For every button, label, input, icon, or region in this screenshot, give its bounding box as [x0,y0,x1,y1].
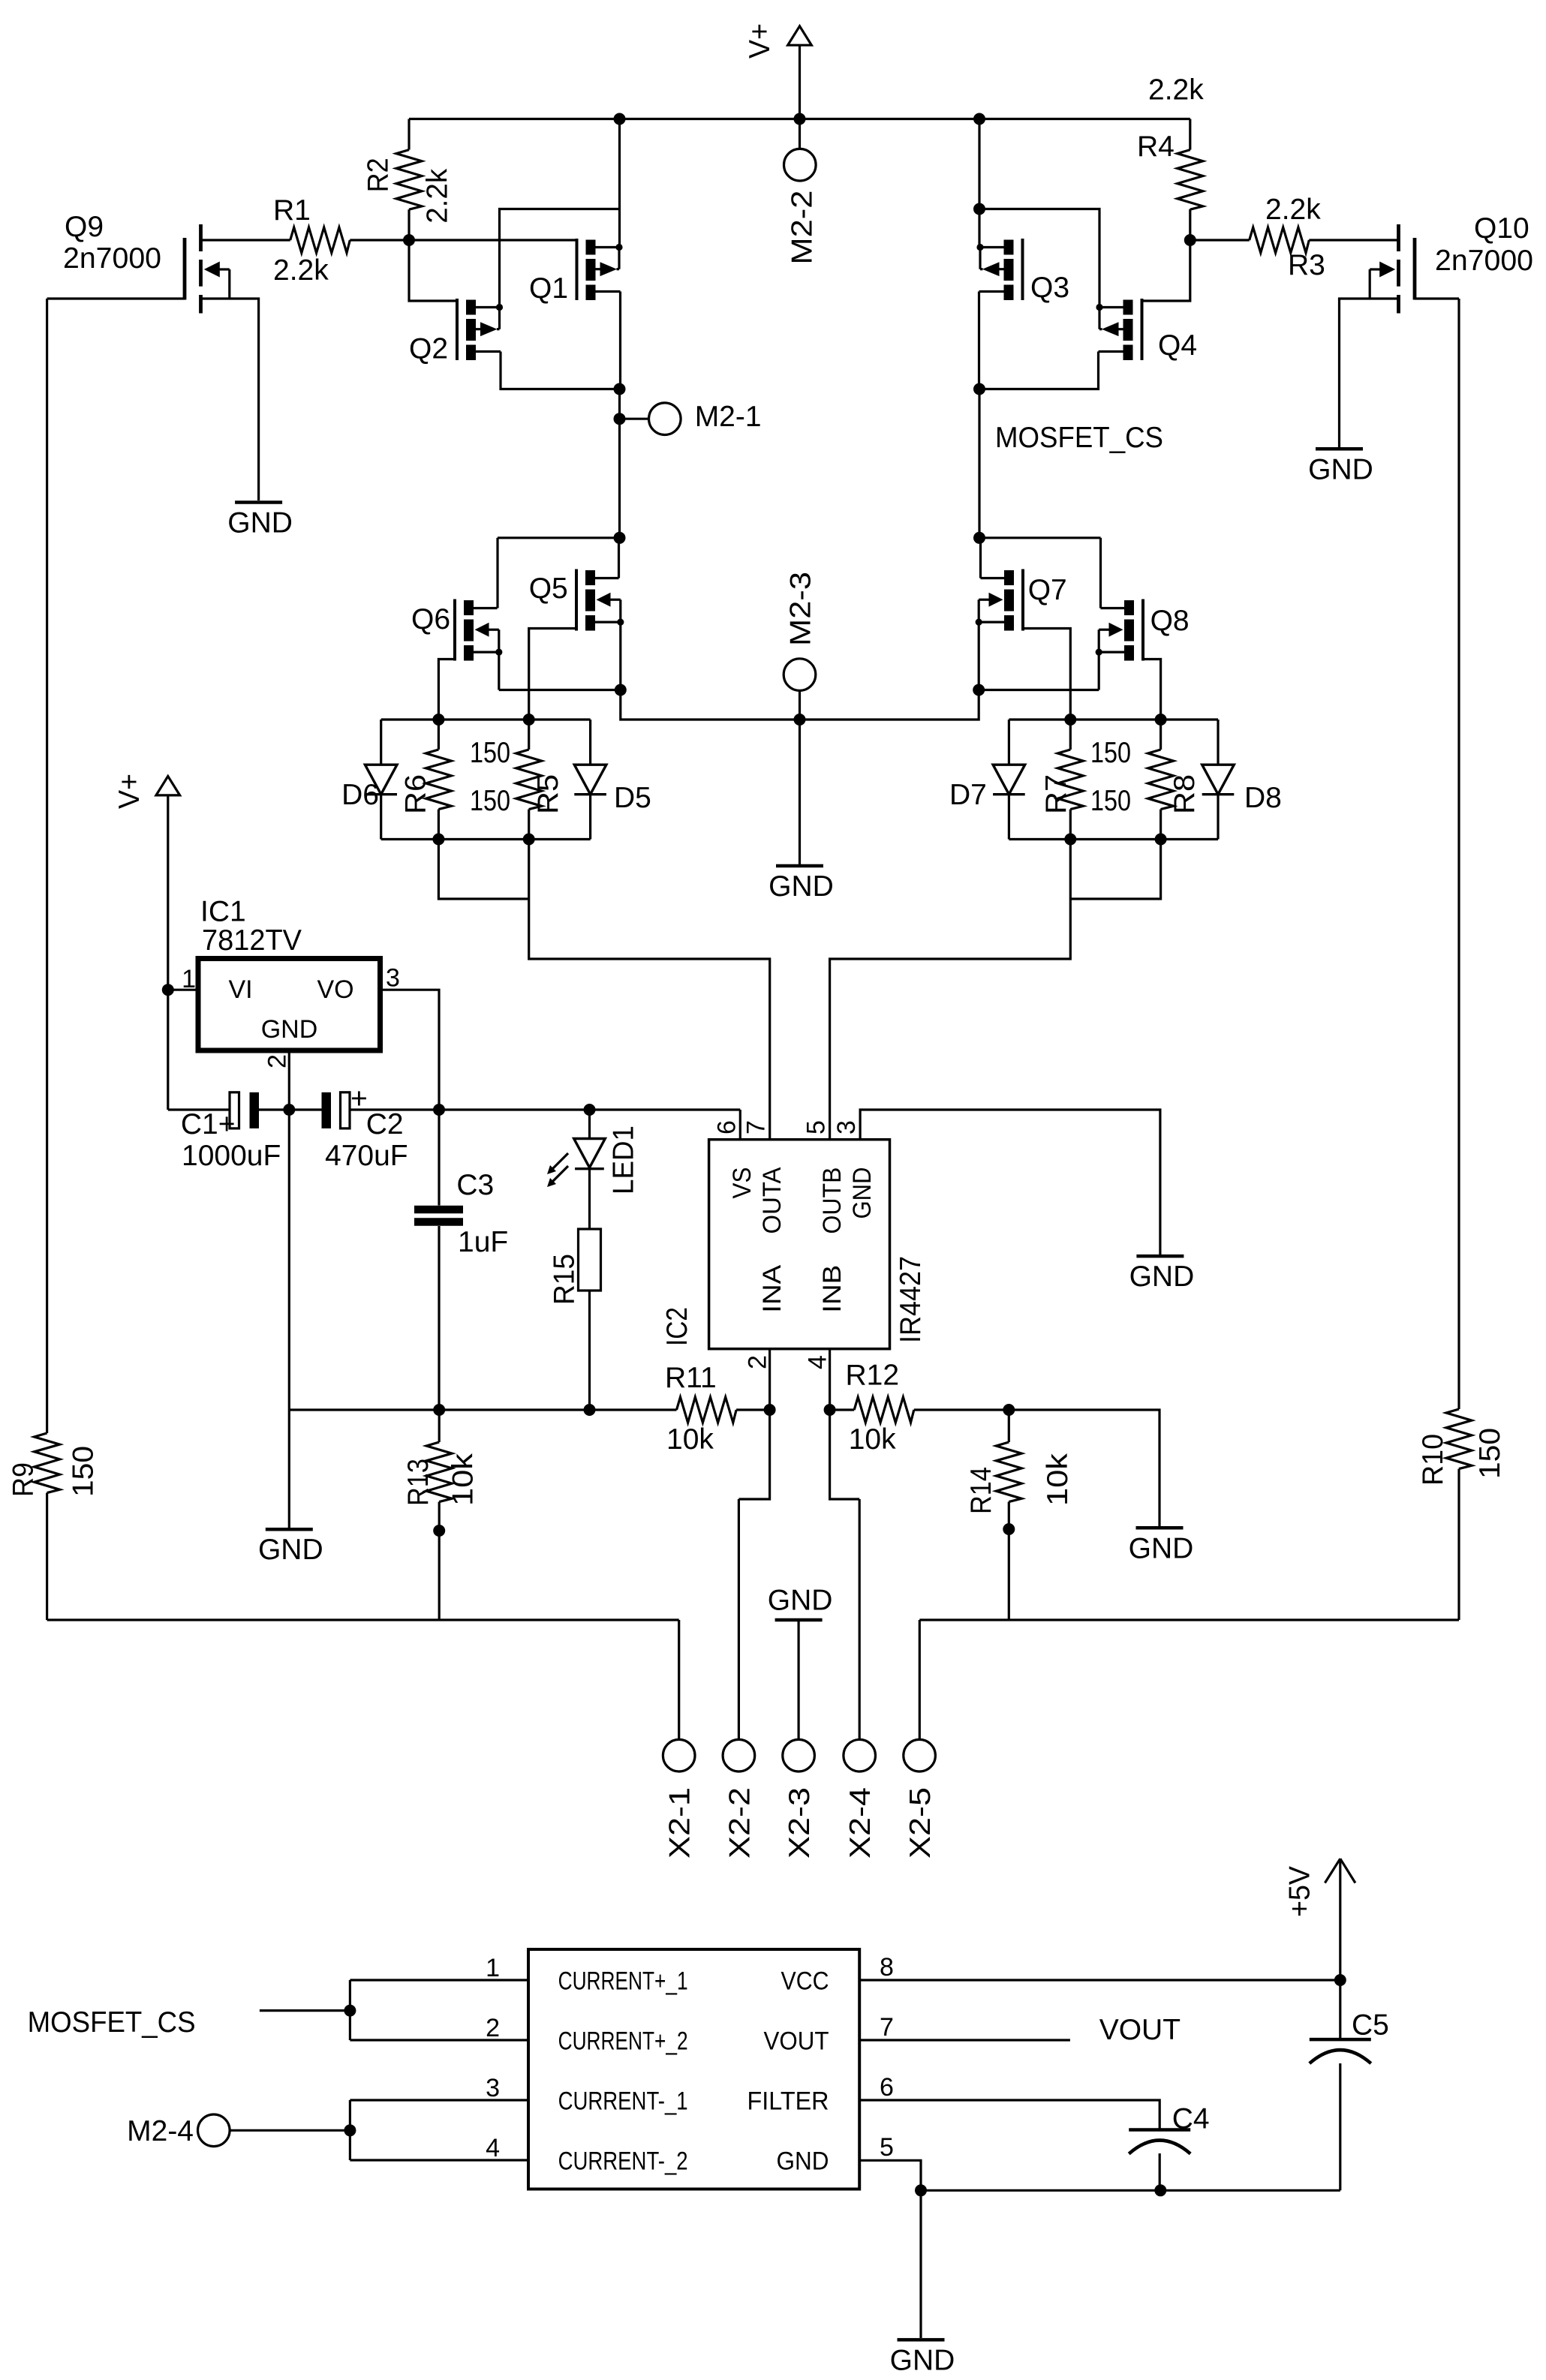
svg-text:1: 1 [182,965,196,993]
svg-text:X2-2: X2-2 [723,1787,756,1859]
svg-text:2: 2 [486,2014,500,2042]
svg-text:D7: D7 [949,779,987,811]
svg-text:Q7: Q7 [1028,574,1067,606]
svg-text:1uF: 1uF [458,1226,508,1258]
svg-text:150: 150 [1474,1428,1506,1479]
svg-text:8: 8 [880,1953,894,1982]
svg-text:Q4: Q4 [1158,329,1197,362]
svg-text:VCC: VCC [781,1967,829,1996]
svg-text:Q8: Q8 [1150,605,1190,637]
svg-text:470uF: 470uF [325,1140,408,1172]
svg-text:GND: GND [1308,453,1373,485]
svg-text:4: 4 [804,1355,832,1369]
svg-text:MOSFET_CS: MOSFET_CS [28,2006,196,2039]
svg-text:Q2: Q2 [409,333,448,365]
svg-text:D6: D6 [341,779,379,811]
svg-text:6: 6 [712,1120,741,1134]
svg-text:5: 5 [802,1120,831,1134]
svg-text:M2-3: M2-3 [785,572,817,646]
svg-text:10k: 10k [666,1423,714,1456]
svg-text:GND: GND [848,1167,877,1219]
svg-text:1000uF: 1000uF [182,1140,281,1172]
svg-text:GND: GND [890,2344,955,2376]
svg-text:IR4427: IR4427 [895,1256,927,1343]
svg-text:C3: C3 [456,1169,494,1201]
svg-text:CURRENT-_2: CURRENT-_2 [558,2147,688,2176]
svg-text:2n7000: 2n7000 [63,242,161,275]
svg-text:Q6: Q6 [411,603,450,636]
svg-text:R11: R11 [665,1362,717,1394]
svg-text:GND: GND [777,2147,829,2176]
svg-text:IC2: IC2 [661,1307,693,1346]
svg-text:V+: V+ [113,774,146,809]
svg-text:R8: R8 [1169,774,1201,814]
svg-text:Q9: Q9 [65,211,104,243]
svg-text:R9: R9 [7,1462,39,1497]
svg-text:VS: VS [728,1167,756,1199]
svg-text:GND: GND [768,1585,833,1617]
svg-text:VI: VI [229,975,253,1004]
svg-text:R3: R3 [1288,249,1325,281]
svg-text:CURRENT-_1: CURRENT-_1 [558,2087,688,2116]
svg-text:150: 150 [1090,785,1131,817]
svg-text:GND: GND [768,870,834,903]
svg-text:D5: D5 [614,782,651,814]
svg-text:VO: VO [317,975,354,1004]
svg-text:C1+: C1+ [181,1108,236,1140]
svg-text:3: 3 [486,2074,500,2102]
svg-text:150: 150 [67,1446,99,1497]
svg-text:VOUT: VOUT [764,2027,829,2056]
svg-text:2.2k: 2.2k [421,168,453,223]
svg-text:7: 7 [742,1120,771,1134]
svg-text:2: 2 [744,1355,772,1369]
svg-text:MOSFET_CS: MOSFET_CS [995,422,1163,454]
svg-text:INB: INB [818,1265,847,1313]
svg-text:CURRENT+_1: CURRENT+_1 [558,1967,688,1996]
svg-text:10k: 10k [849,1423,896,1456]
svg-text:R10: R10 [1417,1434,1449,1486]
svg-text:C4: C4 [1172,2103,1210,2135]
svg-text:M2-4: M2-4 [127,2115,194,2147]
svg-text:4: 4 [486,2134,500,2162]
svg-text:GND: GND [261,1015,318,1044]
svg-text:R7: R7 [1040,774,1072,814]
svg-text:X2-5: X2-5 [904,1787,937,1859]
svg-text:3: 3 [386,964,400,993]
svg-text:Q10: Q10 [1474,212,1529,245]
svg-text:GND: GND [1129,1532,1194,1564]
svg-text:IC1: IC1 [200,896,246,928]
svg-text:GND: GND [258,1534,323,1566]
svg-text:R2: R2 [362,158,394,192]
svg-text:150: 150 [470,785,510,817]
svg-text:GND: GND [227,507,293,539]
svg-text:INA: INA [758,1264,787,1312]
svg-text:R5: R5 [532,774,564,814]
svg-text:CURRENT+_2: CURRENT+_2 [558,2027,688,2056]
svg-text:Q1: Q1 [529,272,568,305]
svg-text:2.2k: 2.2k [273,254,329,287]
svg-text:M2-2: M2-2 [786,191,818,265]
svg-text:R1: R1 [273,194,311,227]
svg-text:7: 7 [880,2013,894,2042]
svg-text:150: 150 [1090,737,1131,769]
svg-text:2: 2 [263,1054,292,1068]
svg-text:2.2k: 2.2k [1148,74,1204,107]
svg-text:X2-4: X2-4 [844,1787,877,1859]
svg-text:5: 5 [880,2133,894,2162]
svg-text:2.2k: 2.2k [1265,194,1321,226]
svg-text:R13: R13 [402,1459,435,1506]
svg-text:LED1: LED1 [608,1125,640,1195]
svg-text:R4: R4 [1137,131,1175,163]
svg-text:R14: R14 [965,1467,997,1514]
svg-text:7812TV: 7812TV [202,924,302,957]
svg-text:1: 1 [486,1954,500,1982]
svg-text:VOUT: VOUT [1099,2014,1181,2046]
svg-text:6: 6 [880,2073,894,2102]
svg-text:C2: C2 [366,1108,404,1140]
svg-text:10k: 10k [447,1453,480,1506]
svg-text:M2-1: M2-1 [695,401,762,433]
svg-text:X2-3: X2-3 [784,1787,816,1859]
svg-text:2n7000: 2n7000 [1435,245,1533,277]
svg-text:Q5: Q5 [529,572,568,605]
svg-text:150: 150 [470,737,510,769]
svg-text:OUTB: OUTB [818,1167,847,1234]
svg-text:10k: 10k [1042,1453,1074,1506]
svg-text:R15: R15 [549,1254,581,1305]
svg-text:Q3: Q3 [1030,272,1069,304]
svg-text:3: 3 [832,1120,861,1134]
svg-text:V+: V+ [744,23,776,59]
svg-text:FILTER: FILTER [747,2087,829,2116]
svg-text:X2-1: X2-1 [664,1787,696,1859]
svg-text:GND: GND [1129,1261,1195,1293]
svg-text:R6: R6 [399,774,432,814]
svg-text:+5V: +5V [1283,1866,1316,1917]
svg-text:C5: C5 [1352,2009,1389,2042]
svg-text:R12: R12 [846,1360,900,1392]
svg-text:OUTA: OUTA [758,1167,787,1234]
svg-text:D8: D8 [1244,782,1282,814]
